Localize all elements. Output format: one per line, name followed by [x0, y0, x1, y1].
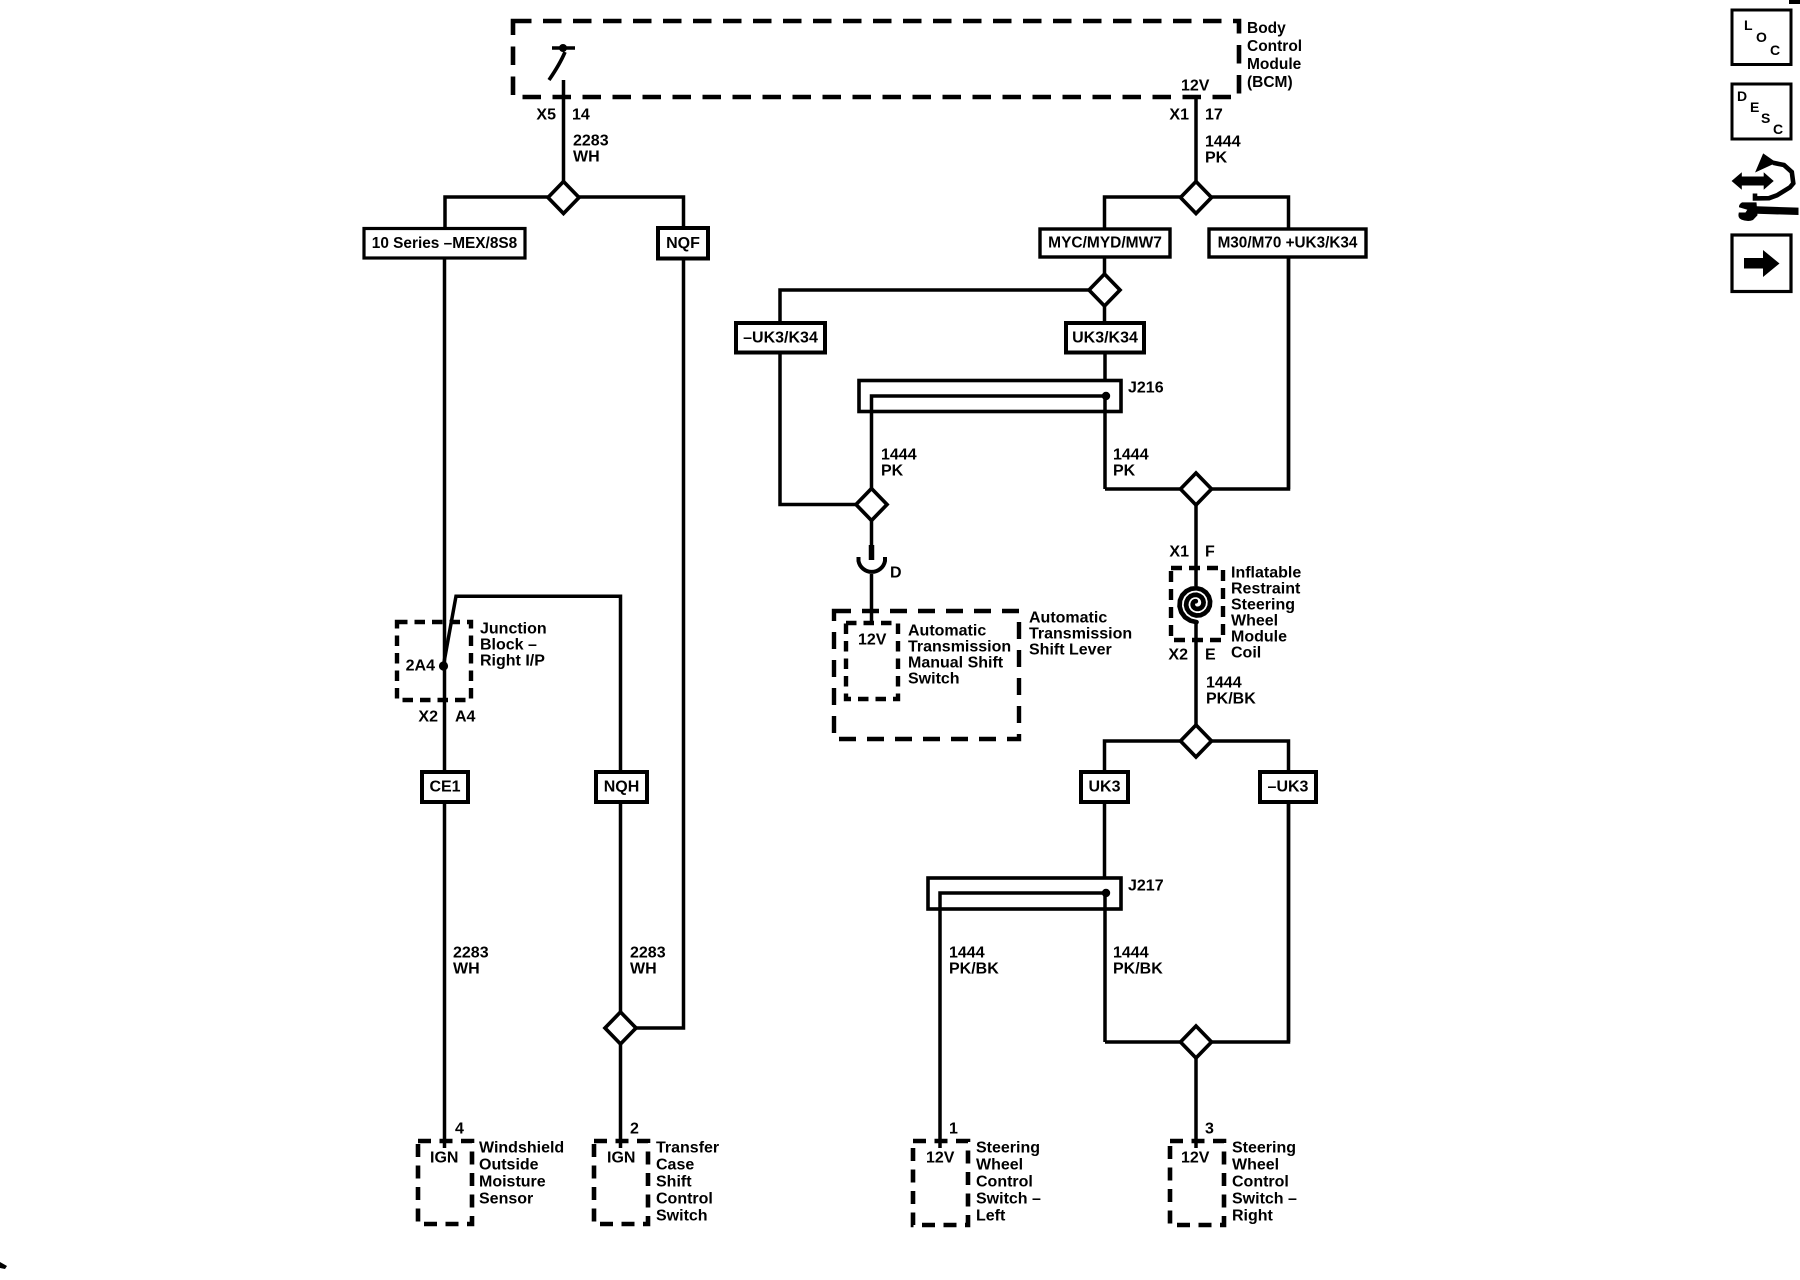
wire from NQF down and over to splice S2 [636, 258, 684, 1028]
wire label 1444 PK (upper) [1205, 134, 1241, 167]
svg-text:Right: Right [1232, 1208, 1274, 1225]
svg-text:C: C [1770, 42, 1780, 58]
label Steering Wheel Control Switch - Right [1232, 1140, 1297, 1225]
svg-text:PK: PK [1205, 150, 1228, 167]
svg-text:–UK3: –UK3 [1268, 779, 1309, 796]
junction dot in J217 [1102, 889, 1110, 897]
label D [890, 565, 902, 582]
svg-text:1444: 1444 [1113, 945, 1149, 962]
svg-text:MYC/MYD/MW7: MYC/MYD/MW7 [1048, 235, 1162, 252]
pin label X5 [536, 107, 556, 124]
svg-text:PK: PK [1113, 463, 1136, 480]
device box Transfer Case Shift Control Switch (dashed) [594, 1141, 648, 1224]
svg-text:2A4: 2A4 [406, 658, 435, 675]
svg-text:17: 17 [1205, 107, 1223, 124]
wire from UK3/K34 into connector J216 [1103, 352, 1107, 396]
splice S1 diamond [548, 182, 579, 214]
wire label 1444 PK/BK (right) [1113, 945, 1163, 978]
svg-text:UK3/K34: UK3/K34 [1072, 329, 1138, 346]
svg-text:Junction: Junction [480, 621, 547, 638]
connector J217 outline [928, 878, 1121, 909]
svg-text:WH: WH [630, 961, 657, 978]
svg-text:Sensor: Sensor [479, 1191, 533, 1208]
wire label 2283 WH (upper left) [573, 133, 609, 166]
pin label A4 [455, 709, 476, 726]
junction block dashed outline (Junction Block - Right I/P) [397, 622, 471, 700]
switch box 12V Automatic Transmission Manual Shift Switch (dashed inner) [846, 623, 898, 699]
svg-text:12V: 12V [1181, 78, 1210, 95]
wire from -UK3 down right side [1287, 802, 1291, 1042]
page corner artifact top-right [1789, 0, 1800, 4]
svg-text:E: E [1205, 647, 1216, 664]
svg-text:O: O [1756, 29, 1767, 45]
device box Steering Wheel Control Switch - Left (dashed) [913, 1141, 968, 1225]
option box M30/M70 +UK3/K34 [1209, 229, 1366, 257]
pin label 4 (Windshield sensor) [455, 1121, 464, 1138]
device box Automatic Transmission Shift Lever (dashed outer) [834, 611, 1019, 739]
svg-text:PK/BK: PK/BK [1113, 961, 1163, 978]
wire inside J217 branching left [940, 893, 1106, 1148]
svg-text:J216: J216 [1128, 380, 1164, 397]
svg-text:1444: 1444 [1113, 447, 1149, 464]
wire from BCM X5-14 down to splice [562, 80, 566, 197]
wire label 2283 WH (left lower) [453, 945, 489, 978]
splice S7 horizontal [1105, 741, 1289, 773]
wire label 1444 PK/BK (left) [949, 945, 999, 978]
splice S3 diamond [1181, 182, 1212, 214]
junction dot in J216 [1102, 392, 1110, 400]
label 2A4 [406, 658, 435, 675]
label Inflatable Restraint Steering Wheel Module Coil [1231, 565, 1301, 662]
splice S3 horizontal [1105, 197, 1289, 230]
svg-text:1: 1 [949, 1121, 958, 1138]
wire from splice S5 to connector D [870, 518, 874, 546]
terminal label 12V (shift switch) [858, 632, 887, 649]
svg-text:S: S [1761, 110, 1770, 126]
icon box LOC [1732, 10, 1791, 65]
pin label 1 (left steering switch) [949, 1121, 958, 1138]
svg-text:Switch –: Switch – [1232, 1191, 1297, 1208]
splice S4 diamond [1089, 274, 1120, 306]
splice S8 horizontal [1105, 802, 1289, 1042]
svg-text:14: 14 [572, 107, 590, 124]
svg-text:Shift: Shift [656, 1174, 692, 1191]
svg-text:IGN: IGN [607, 1150, 635, 1167]
svg-text:C: C [1773, 121, 1783, 137]
svg-text:12V: 12V [926, 1150, 955, 1167]
label 12V (BCM internal node) [1181, 78, 1210, 95]
svg-text:1444: 1444 [881, 447, 917, 464]
svg-text:(BCM): (BCM) [1247, 74, 1293, 91]
terminal label IGN (windshield sensor) [430, 1150, 458, 1167]
svg-text:X1: X1 [1169, 107, 1189, 124]
branch wire from 2A4 to NQH drop [444, 595, 621, 773]
svg-text:Outside: Outside [479, 1157, 539, 1174]
splice S7 diamond [1181, 725, 1212, 757]
svg-text:CE1: CE1 [429, 779, 460, 796]
svg-text:Transmission: Transmission [908, 639, 1011, 656]
option box -UK3/K34 [736, 323, 825, 353]
splice S2 diamond [605, 1012, 636, 1044]
svg-text:Wheel: Wheel [976, 1157, 1023, 1174]
option box MYC/MYD/MW7 [1040, 229, 1170, 257]
splice S8 diamond [1181, 1026, 1212, 1058]
splice S4 horizontal to -UK3/K34 [780, 290, 1105, 324]
svg-text:NQH: NQH [604, 779, 640, 796]
svg-text:Switch: Switch [908, 671, 960, 688]
terminal label 12V (right steering switch) [1181, 1150, 1210, 1167]
svg-text:Case: Case [656, 1157, 694, 1174]
junction node 2A4 dot [439, 661, 448, 670]
wire from J216 dot down to splice S6 row [1103, 396, 1107, 489]
svg-text:Control: Control [1232, 1174, 1289, 1191]
svg-text:D: D [1737, 88, 1747, 104]
wire from splice S8 to right switch [1194, 1056, 1198, 1148]
svg-text:1444: 1444 [1205, 134, 1241, 151]
splice S6 diamond [1181, 473, 1212, 505]
svg-text:Restraint: Restraint [1231, 581, 1301, 598]
svg-text:Steering: Steering [976, 1140, 1040, 1157]
wire label 1444 PK/BK (below coil) [1206, 675, 1256, 708]
wire from -UK3/K34 down and over to splice S5 [780, 352, 857, 505]
inductor coil spiral (SIR coil) [1180, 588, 1211, 622]
svg-text:2: 2 [630, 1121, 639, 1138]
wire label 1444 PK (right of J216 drop) [1113, 447, 1149, 480]
svg-text:12V: 12V [1181, 1150, 1210, 1167]
label Steering Wheel Control Switch - Left [976, 1140, 1041, 1225]
svg-text:Wheel: Wheel [1231, 613, 1278, 630]
svg-text:2283: 2283 [453, 945, 489, 962]
svg-text:Control: Control [1247, 38, 1302, 55]
svg-text:3: 3 [1205, 1121, 1214, 1138]
connector D female terminal arc [859, 557, 886, 572]
svg-text:D: D [890, 565, 902, 582]
svg-text:2283: 2283 [573, 133, 609, 150]
icon box DESC [1732, 84, 1791, 139]
option box NQH [596, 772, 647, 802]
svg-text:Wheel: Wheel [1232, 1157, 1279, 1174]
svg-text:2283: 2283 [630, 945, 666, 962]
svg-text:Windshield: Windshield [479, 1140, 564, 1157]
wire inside J216 to left drop [872, 396, 1107, 490]
terminal label 12V (left steering switch) [926, 1150, 955, 1167]
pin label 2 (Transfer case switch) [630, 1121, 639, 1138]
wire from J217 down to splice S8 [1103, 893, 1107, 1042]
pin label 3 (right steering switch) [1205, 1121, 1214, 1138]
label Automatic Transmission Manual Shift Switch [908, 623, 1011, 688]
wire from connector D into shift switch [870, 574, 874, 623]
svg-text:WH: WH [573, 149, 600, 166]
wire from M30 box down right side [1287, 257, 1291, 489]
wire label 1444 PK (left of J216 drop) [881, 447, 917, 480]
svg-text:PK: PK [881, 463, 904, 480]
option box -UK3 [1260, 772, 1316, 802]
wire splice horizontal to 10-Series and NQF [445, 197, 684, 230]
option box UK3 [1081, 772, 1128, 802]
label Windshield Outside Moisture Sensor [479, 1140, 564, 1208]
svg-text:1444: 1444 [1206, 675, 1242, 692]
label Body Control Module (BCM) [1247, 20, 1302, 91]
device box Windshield Outside Moisture Sensor (dashed) [418, 1141, 472, 1224]
wire from UK3 into connector J217 [1103, 802, 1107, 893]
pin label X1 (BCM) [1169, 107, 1189, 124]
svg-text:WH: WH [453, 961, 480, 978]
wire from NQH down to splice S2 [619, 802, 623, 1148]
label J216 [1128, 380, 1164, 397]
splice S6 horizontal [1105, 257, 1289, 489]
pin label X2 (coil) [1168, 647, 1188, 664]
option box 10 Series -MEX/8S8 [364, 229, 525, 259]
option box UK3/K34 [1066, 323, 1144, 353]
svg-text:X5: X5 [536, 107, 556, 124]
switch inside BCM (ignition feed contact) [549, 44, 575, 80]
wire from MYC box to splice S4 [1103, 257, 1107, 290]
svg-text:Inflatable: Inflatable [1231, 565, 1301, 582]
splice S5 diamond [856, 489, 887, 521]
wire from splice S6 to coil module [1194, 503, 1198, 586]
svg-text:F: F [1205, 544, 1215, 561]
svg-text:Left: Left [976, 1208, 1006, 1225]
option box CE1 [422, 772, 468, 802]
svg-text:Automatic: Automatic [1029, 610, 1107, 627]
svg-text:–UK3/K34: –UK3/K34 [743, 329, 818, 346]
svg-text:Transmission: Transmission [1029, 626, 1132, 643]
pin label 14 [572, 107, 590, 124]
page artifact bottom-left [0, 1262, 7, 1269]
svg-text:Switch: Switch [656, 1208, 708, 1225]
svg-text:Module: Module [1231, 629, 1287, 646]
svg-text:J217: J217 [1128, 878, 1164, 895]
svg-text:A4: A4 [455, 709, 476, 726]
svg-text:X1: X1 [1169, 544, 1189, 561]
svg-text:1444: 1444 [949, 945, 985, 962]
svg-text:Switch –: Switch – [976, 1191, 1041, 1208]
svg-text:4: 4 [455, 1121, 464, 1138]
svg-text:Moisture: Moisture [479, 1174, 546, 1191]
svg-text:Control: Control [656, 1191, 713, 1208]
svg-text:Steering: Steering [1232, 1140, 1296, 1157]
label Transfer Case Shift Control Switch [656, 1140, 719, 1225]
svg-text:Steering: Steering [1231, 597, 1295, 614]
svg-text:Right I/P: Right I/P [480, 653, 545, 670]
pin label X2 (junction block) [418, 709, 438, 726]
wire label 2283 WH (NQH lower) [630, 945, 666, 978]
option box NQF [658, 228, 708, 259]
svg-text:Transfer: Transfer [656, 1140, 719, 1157]
svg-text:M30/M70 +UK3/K34: M30/M70 +UK3/K34 [1218, 235, 1358, 252]
svg-text:E: E [1750, 99, 1759, 115]
icon double-headed arrow with wrench (schematic symbol legend) [1733, 155, 1799, 222]
wire from splice S4 to UK3/K34 box [1103, 290, 1107, 324]
icon box right arrow [1732, 235, 1791, 292]
module box Inflatable Restraint Steering Wheel Module Coil (dashed) [1171, 568, 1223, 640]
svg-text:Automatic: Automatic [908, 623, 986, 640]
svg-text:NQF: NQF [666, 235, 700, 252]
svg-text:10 Series –MEX/8S8: 10 Series –MEX/8S8 [372, 235, 518, 252]
svg-text:Shift Lever: Shift Lever [1029, 642, 1112, 659]
svg-text:IGN: IGN [430, 1150, 458, 1167]
label J217 [1128, 878, 1164, 895]
svg-text:X2: X2 [418, 709, 438, 726]
wire from coil down through module edge [1194, 621, 1198, 727]
svg-text:Body: Body [1247, 20, 1286, 37]
label Junction Block - Right I/P [480, 621, 547, 670]
connector J216 outline [859, 381, 1121, 412]
svg-text:L: L [1744, 17, 1753, 33]
svg-text:X2: X2 [1168, 647, 1188, 664]
pin label X1 (coil) [1169, 544, 1189, 561]
module BCM (Body Control Module) dashed outline [513, 21, 1239, 97]
svg-text:Manual Shift: Manual Shift [908, 655, 1004, 672]
wire 2283 WH from 10-Series box down to junction block 2A4 and on to CE1 [443, 258, 447, 772]
svg-text:Coil: Coil [1231, 645, 1261, 662]
svg-text:PK/BK: PK/BK [1206, 691, 1256, 708]
svg-text:PK/BK: PK/BK [949, 961, 999, 978]
terminal label IGN (transfer case switch) [607, 1150, 635, 1167]
pin label F [1205, 544, 1215, 561]
svg-text:Block –: Block – [480, 637, 537, 654]
pin label 17 [1205, 107, 1223, 124]
pin label E [1205, 647, 1216, 664]
svg-text:UK3: UK3 [1088, 779, 1120, 796]
wire 2283 WH below CE1 to Windshield sensor [443, 802, 447, 1148]
connector D male pin [869, 545, 875, 560]
svg-text:Control: Control [976, 1174, 1033, 1191]
label Automatic Transmission Shift Lever [1029, 610, 1132, 659]
svg-text:12V: 12V [858, 632, 887, 649]
svg-text:Module: Module [1247, 56, 1302, 73]
wire 1444 PK from BCM X1-17 to splice S3 [1194, 97, 1198, 197]
device box Steering Wheel Control Switch - Right (dashed) [1170, 1141, 1224, 1225]
